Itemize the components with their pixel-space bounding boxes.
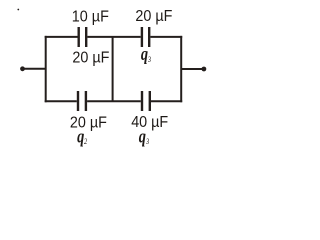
capacitor C1 10 uF (top left) plates <box>77 27 79 47</box>
node: left terminal dot <box>20 66 25 71</box>
svg-text:2: 2 <box>84 137 87 146</box>
svg-text:3: 3 <box>147 55 151 64</box>
svg-text:20 µF: 20 µF <box>72 50 109 67</box>
wire top rail middle segment <box>87 36 140 38</box>
wire top rail right segment <box>150 36 182 38</box>
svg-text:20 µF: 20 µF <box>70 115 107 132</box>
wire bottom rail left segment <box>45 100 77 102</box>
wire right terminal lead <box>181 68 204 70</box>
wire right vertical side <box>180 36 182 102</box>
capacitor C4 40 uF (bottom right) plates <box>141 91 143 111</box>
capacitor C3 20 uF (bottom left) plates <box>77 91 79 111</box>
svg-text:10 µF: 10 µF <box>72 8 109 25</box>
wire left terminal lead <box>23 68 46 70</box>
wire bottom rail middle segment <box>87 100 141 102</box>
wire top rail left segment <box>45 36 78 38</box>
node: right terminal dot <box>202 67 207 72</box>
stray period mark top left <box>17 9 19 11</box>
svg-text:20 µF: 20 µF <box>135 8 172 25</box>
wire middle vertical link <box>112 37 114 101</box>
svg-text:3: 3 <box>145 137 149 146</box>
wire bottom rail right segment <box>151 100 182 102</box>
capacitor C2 20 uF (top right) plates <box>141 27 143 47</box>
wire left vertical side <box>45 36 47 102</box>
svg-text:40 µF: 40 µF <box>131 114 168 131</box>
